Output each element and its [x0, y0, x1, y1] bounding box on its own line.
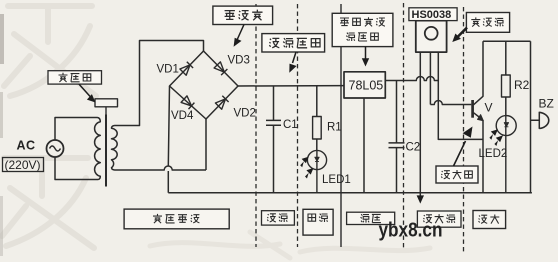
stage box 滤波 — [262, 211, 295, 225]
callout label: 3-terminal regulator 三端集成稳压器 — [332, 13, 393, 66]
diode VD4 — [181, 96, 194, 109]
svg-text:C1: C1 — [283, 119, 298, 131]
callout label: rectifier bridge 整流桥 — [213, 6, 273, 47]
capacitor C1 — [266, 86, 281, 193]
capacitor C2 — [389, 81, 405, 193]
AC source circle — [47, 140, 64, 157]
resistor R2 — [505, 41, 507, 115]
wire primary loop top — [55, 118, 98, 141]
buzzer BZ — [531, 41, 540, 192]
svg-text:(220V): (220V) — [5, 158, 41, 172]
HS0038 leg 3 to emitter ground path — [438, 52, 483, 139]
HS0038 leg 1 with infrared arrow down — [419, 52, 421, 196]
section divider dashed line 4 — [403, 3, 405, 250]
LED1 — [307, 150, 326, 169]
stage box 稳压 — [347, 212, 395, 224]
svg-text:78L05: 78L05 — [349, 79, 384, 93]
wire 78L05 ground pin — [363, 98, 365, 193]
callout label: receiver head 接收头 — [452, 13, 509, 43]
HS0038 leg 2 — [429, 52, 431, 104]
LED1 light arrows — [300, 157, 313, 179]
callout label: filter capacitor 滤波电容 — [262, 34, 325, 73]
LED2 light arrows — [489, 129, 503, 146]
svg-text:V: V — [485, 101, 493, 115]
svg-text:LED2: LED2 — [479, 148, 508, 160]
stage box 放大 — [473, 211, 506, 229]
220V label box — [3, 158, 44, 172]
wire bridge bottom vertex down — [205, 119, 207, 170]
svg-text:AC: AC — [17, 139, 36, 153]
infrared direction arrowhead — [417, 195, 424, 203]
svg-text:VD2: VD2 — [234, 108, 256, 120]
watermark glyph bottom-left — [2, 158, 94, 248]
LED2 — [496, 116, 516, 136]
svg-text:HS0038: HS0038 — [412, 9, 452, 21]
transformer primary winding — [95, 118, 101, 180]
watermark strokes bottom-centre — [150, 232, 430, 258]
stage box 变压整流 — [124, 209, 229, 229]
wire top rail right section — [483, 40, 531, 42]
diode VD2 — [215, 96, 228, 109]
stage box 电源 — [303, 209, 333, 235]
fuse/designator T box on core — [95, 99, 118, 107]
wire secondary top to bridge top — [115, 41, 204, 126]
section divider dashed line 5 — [463, 7, 465, 252]
transistor emitter — [474, 113, 484, 193]
IR receiver HS0038 package — [416, 21, 447, 52]
section divider dashed line 2 — [297, 4, 299, 247]
label HS0038 — [409, 8, 457, 21]
watermark glyph top-left — [4, 6, 96, 96]
stage box 红外线 — [417, 211, 461, 227]
wire 78L05 output with hops over legs — [385, 77, 438, 81]
resistor R1 — [316, 86, 318, 151]
svg-text:VD4: VD4 — [171, 110, 194, 122]
regulator 78L05 box — [344, 72, 385, 98]
bridge rectifier diamond — [170, 51, 239, 119]
diode VD3 — [214, 62, 227, 75]
diode VD1 — [180, 62, 193, 75]
wire DC minus from left vertex down to rail — [168, 86, 169, 193]
callout label: transformer 变压器 — [48, 71, 102, 103]
svg-text:C2: C2 — [406, 142, 421, 154]
svg-text:VD3: VD3 — [228, 55, 250, 67]
wire DC plus rail top — [238, 85, 344, 87]
transformer secondary winding — [112, 126, 118, 171]
wire secondary bottom with hop — [115, 166, 207, 170]
svg-text:BZ: BZ — [539, 97, 554, 111]
wire primary loop bottom — [55, 157, 98, 180]
section divider line 3 — [340, 4, 342, 247]
section divider dashed line 1 — [255, 4, 257, 247]
ground rail bottom — [168, 192, 532, 194]
transistor V base bar — [471, 100, 474, 118]
svg-text:R1: R1 — [327, 122, 342, 134]
svg-text:VD1: VD1 — [157, 64, 179, 76]
transformer core — [105, 115, 107, 187]
watermark smudge left edge — [0, 14, 4, 64]
svg-text:R2: R2 — [514, 78, 530, 92]
wire signal leg2 to base with hop — [430, 101, 471, 105]
svg-text:LED1: LED1 — [322, 174, 351, 186]
svg-text:ybx8.cn: ybx8.cn — [379, 219, 443, 242]
callout label: amplifier 放大器 — [436, 127, 478, 184]
transistor collector — [474, 41, 484, 105]
